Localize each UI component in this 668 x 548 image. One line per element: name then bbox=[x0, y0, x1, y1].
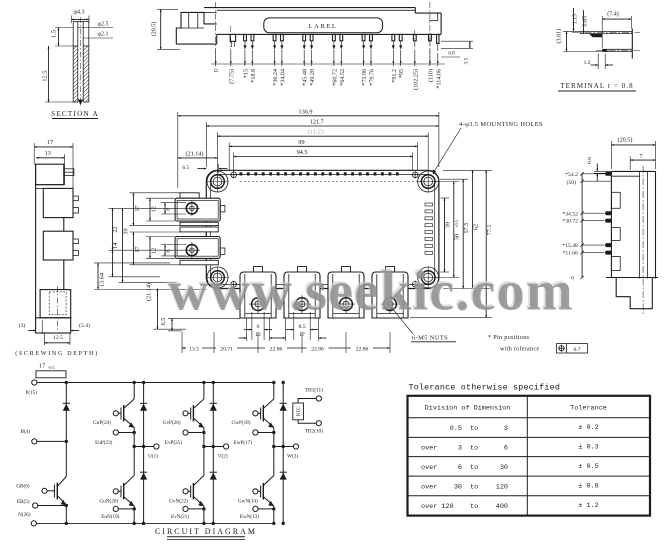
dim phi2.5 leader bbox=[78, 22, 113, 28]
svg-text:17: 17 bbox=[47, 139, 53, 146]
dim 7 right view bbox=[630, 153, 655, 170]
dim (21.14) horizontal bbox=[178, 150, 218, 158]
left terminal block A bbox=[175, 193, 225, 221]
svg-text:*49.28: *49.28 bbox=[310, 69, 316, 86]
svg-text:P(15): P(15) bbox=[25, 389, 37, 396]
terminal EwP(17) emitter-sense upper bbox=[234, 430, 276, 446]
svg-text:EuN(19): EuN(19) bbox=[101, 513, 119, 520]
svg-text:12: 12 bbox=[150, 248, 157, 254]
svg-text:0: 0 bbox=[214, 69, 220, 72]
left view body bbox=[36, 164, 79, 333]
terminal GvN(22) gate lower bbox=[169, 489, 188, 505]
svg-text:to: to bbox=[470, 503, 478, 511]
side pins bbox=[605, 172, 612, 176]
node w output / terminal W(3) bbox=[272, 444, 299, 460]
dim 39 (left) bbox=[119, 208, 177, 282]
svg-text:*30.24: *30.24 bbox=[273, 69, 279, 86]
right side pin labels bbox=[562, 172, 578, 282]
svg-text:20.71: 20.71 bbox=[220, 346, 233, 352]
svg-text:± 0.5: ± 0.5 bbox=[578, 463, 598, 471]
svg-text:*79.76: *79.76 bbox=[370, 69, 376, 86]
svg-text:TH2(10): TH2(10) bbox=[305, 427, 323, 434]
dim 6.5 vertical bbox=[160, 318, 240, 331]
svg-text:with tolerance: with tolerance bbox=[500, 346, 539, 353]
dim 12 (top block) bbox=[146, 198, 175, 221]
svg-text:14: 14 bbox=[112, 243, 119, 249]
hidden line under pin row bbox=[240, 180, 425, 182]
svg-text:over 120: over 120 bbox=[421, 503, 454, 511]
svg-text:94.5: 94.5 bbox=[297, 149, 308, 156]
svg-text:121.7: 121.7 bbox=[310, 119, 324, 126]
dim (7.4) bbox=[602, 11, 631, 49]
wire junctions leg v bbox=[202, 381, 205, 384]
dim 22 bbox=[109, 208, 185, 250]
dim (5.4) bbox=[71, 322, 90, 331]
dim (20.5) right view bbox=[611, 137, 655, 169]
dim 136.9 bbox=[178, 108, 439, 188]
junctions brake bbox=[65, 381, 68, 384]
pin positions tolerance note bbox=[488, 334, 588, 353]
diode D4 (u-phase lower freewheel) bbox=[140, 447, 147, 524]
centerlines bbox=[215, 2, 217, 66]
svg-text:30: 30 bbox=[454, 484, 462, 492]
svg-text:77.1: 77.1 bbox=[486, 225, 493, 236]
transistor Q3 (w-phase upper IGBT) bbox=[258, 383, 274, 447]
dim 111.23 (faint) bbox=[218, 129, 429, 172]
dim (20.5) bbox=[151, 9, 181, 49]
terminal GB(6) bbox=[16, 482, 47, 493]
svg-text:NTC: NTC bbox=[297, 406, 302, 417]
svg-text:136.9: 136.9 bbox=[299, 108, 313, 115]
terminal EvP(25) emitter-sense upper bbox=[165, 430, 206, 446]
svg-text:-0.5: -0.5 bbox=[48, 365, 54, 370]
svg-text:(5.4): (5.4) bbox=[79, 322, 90, 329]
dim 94.5 bbox=[234, 149, 413, 171]
svg-text:120: 120 bbox=[496, 484, 508, 492]
wire junctions leg u bbox=[133, 381, 136, 384]
svg-text:12.5: 12.5 bbox=[53, 335, 63, 341]
diode D5 (v-phase lower freewheel) bbox=[210, 447, 217, 524]
dim phi2.1 leader bbox=[83, 32, 113, 39]
svg-text:1.2: 1.2 bbox=[584, 60, 591, 66]
dim 17 with tolerance bbox=[36, 363, 66, 378]
svg-text:99: 99 bbox=[298, 139, 304, 146]
dim 8.5 bbox=[286, 312, 318, 340]
mounting hole top-left bbox=[207, 171, 229, 193]
svg-text:22.86: 22.86 bbox=[311, 346, 324, 352]
svg-text:± 1.2: ± 1.2 bbox=[578, 502, 598, 510]
diode D6 (w-phase lower freewheel) bbox=[280, 447, 287, 524]
dim 77.1 bbox=[410, 170, 493, 317]
SECTION A title bbox=[51, 110, 99, 119]
svg-text:*34.52: *34.52 bbox=[562, 211, 578, 217]
svg-text:*11.66: *11.66 bbox=[563, 251, 579, 257]
svg-text:EuP(23): EuP(23) bbox=[95, 439, 113, 446]
terminal EwN(13) emitter-sense lower bbox=[240, 506, 276, 520]
6-M5 NUTS note bbox=[391, 306, 457, 342]
node v output / terminal V(2) bbox=[202, 444, 229, 460]
svg-text:*60.72: *60.72 bbox=[332, 69, 338, 86]
mounting hole bottom-right bbox=[417, 267, 439, 289]
node u output / terminal U(1) bbox=[133, 444, 159, 460]
dim 17 (top block) bbox=[130, 193, 181, 226]
svg-text:V(2): V(2) bbox=[218, 453, 228, 460]
svg-text:(20.5): (20.5) bbox=[151, 22, 158, 37]
LABEL box bbox=[264, 18, 383, 33]
dim 50 +-0.5 bbox=[436, 182, 461, 278]
svg-text:50: 50 bbox=[454, 234, 461, 240]
terminal EvN(21) emitter-sense lower bbox=[171, 506, 206, 520]
wire P to brake diode bbox=[65, 383, 67, 477]
module body outline bbox=[206, 170, 439, 288]
mounting foot bbox=[616, 278, 652, 309]
svg-text:*15.48: *15.48 bbox=[562, 243, 578, 249]
transistor Q5 (v-phase lower IGBT) bbox=[188, 447, 204, 524]
svg-text:6: 6 bbox=[257, 324, 260, 330]
corner bosses bbox=[207, 171, 228, 192]
svg-text:6: 6 bbox=[458, 464, 462, 472]
dim 12.5 bbox=[42, 46, 77, 102]
svg-text:(SCREWING DEPTH): (SCREWING DEPTH) bbox=[15, 350, 99, 357]
svg-text:22.86: 22.86 bbox=[270, 346, 283, 352]
svg-text:111.23: 111.23 bbox=[307, 129, 324, 136]
svg-text:(3.81): (3.81) bbox=[556, 29, 563, 44]
svg-text:*75.96: *75.96 bbox=[362, 69, 368, 86]
bottom dimension chain 13.5/20.71/22.86 bbox=[182, 332, 390, 353]
dim 1.15 bbox=[573, 8, 579, 31]
dim 6 (bottom block) bbox=[161, 245, 186, 256]
svg-text:62: 62 bbox=[472, 224, 479, 230]
dim (21.14) vertical bbox=[145, 283, 186, 329]
node B junction bbox=[65, 440, 68, 443]
dim 1.5 bbox=[51, 28, 74, 47]
svg-text:± 0.8: ± 0.8 bbox=[578, 482, 598, 490]
svg-text:39: 39 bbox=[444, 222, 451, 228]
diode D7 (brake freewheel) bbox=[63, 403, 70, 410]
svg-text:(7.4): (7.4) bbox=[607, 11, 619, 18]
svg-text:(3): (3) bbox=[19, 322, 26, 329]
svg-text:GvN(22): GvN(22) bbox=[169, 497, 188, 504]
svg-text:13: 13 bbox=[45, 150, 51, 157]
diode D1 (u-phase upper freewheel) bbox=[140, 383, 147, 447]
left terminal block B bbox=[175, 237, 225, 259]
watermark www.seekic.com bbox=[166, 259, 573, 323]
svg-text:*15: *15 bbox=[243, 69, 249, 78]
terminal GuP(24) gate upper bbox=[93, 411, 118, 427]
diode D2 (v-phase upper freewheel) bbox=[210, 383, 217, 447]
svg-text:3: 3 bbox=[504, 425, 508, 433]
svg-text:17: 17 bbox=[134, 246, 141, 252]
svg-text:EvN(21): EvN(21) bbox=[171, 513, 189, 520]
svg-text:6: 6 bbox=[504, 445, 508, 453]
svg-text:4-φ3.5 MOUNTING HOLES: 4-φ3.5 MOUNTING HOLES bbox=[459, 121, 543, 128]
svg-text:+0.5: +0.5 bbox=[454, 220, 459, 227]
svg-text:± 0.3: ± 0.3 bbox=[578, 443, 598, 451]
svg-text:EwP(17): EwP(17) bbox=[234, 439, 253, 446]
svg-text:Tolerance otherwise specified: Tolerance otherwise specified bbox=[409, 383, 561, 393]
dim 12 (bottom block) bbox=[146, 237, 175, 259]
N bus wire bbox=[36, 522, 273, 524]
svg-text:* Pin positions: * Pin positions bbox=[488, 334, 530, 341]
svg-text:*18.8: *18.8 bbox=[251, 69, 257, 83]
dim 12 bbox=[239, 318, 278, 341]
svg-text:6: 6 bbox=[165, 249, 172, 252]
running dimension baseline with ordinate labels bbox=[211, 50, 445, 90]
molded ribs bbox=[611, 192, 620, 208]
svg-text:www.seekic.com: www.seekic.com bbox=[168, 261, 574, 323]
diode D3 (w-phase upper freewheel) bbox=[280, 383, 287, 447]
dim 14 bbox=[109, 243, 161, 277]
svg-text:Division of Dimension: Division of Dimension bbox=[425, 405, 511, 413]
transistor Q1 (u-phase upper IGBT) bbox=[118, 383, 134, 447]
terminal GuN(20) gate lower bbox=[99, 489, 118, 505]
dim 13 top bbox=[36, 150, 65, 185]
small corner holes bbox=[230, 171, 237, 178]
svg-text:8.5: 8.5 bbox=[298, 324, 305, 330]
svg-text:to: to bbox=[470, 425, 478, 433]
dim 99 bbox=[229, 139, 417, 171]
svg-text:to: to bbox=[470, 445, 478, 453]
dim 1.2 bbox=[584, 54, 613, 70]
svg-text:to: to bbox=[470, 464, 478, 472]
svg-text:0.8: 0.8 bbox=[587, 157, 593, 164]
dim 0.8 (pin offset) bbox=[441, 52, 460, 58]
svg-text:CIRCUIT DIAGRAM: CIRCUIT DIAGRAM bbox=[155, 527, 257, 536]
terminal GwP(18) gate upper bbox=[231, 411, 258, 427]
svg-text:*54.2: *54.2 bbox=[565, 172, 578, 178]
svg-text:13.5: 13.5 bbox=[189, 346, 199, 352]
svg-text:7: 7 bbox=[639, 153, 642, 160]
signal pin row bbox=[240, 172, 399, 175]
bottom screw terminal blocks with M5 nuts bbox=[240, 267, 276, 319]
svg-text:12: 12 bbox=[150, 206, 157, 212]
terminal EuN(19) emitter-sense lower bbox=[101, 506, 136, 520]
svg-text:*91.2: *91.2 bbox=[392, 69, 398, 83]
svg-text:*30.72: *30.72 bbox=[562, 219, 578, 225]
svg-text:GuN(20): GuN(20) bbox=[99, 497, 118, 504]
svg-text:GvP(28): GvP(28) bbox=[163, 419, 181, 426]
dim 12.5 bbox=[45, 333, 71, 345]
svg-text:57.5: 57.5 bbox=[463, 223, 470, 234]
svg-text:over: over bbox=[421, 484, 437, 492]
svg-text:EwN(13): EwN(13) bbox=[240, 513, 260, 520]
svg-text:SECTION A: SECTION A bbox=[51, 110, 99, 118]
P bus wire bbox=[37, 382, 274, 384]
left middle tabs bbox=[180, 222, 218, 225]
svg-text:0.7: 0.7 bbox=[573, 347, 580, 353]
svg-text:EvP(25): EvP(25) bbox=[165, 439, 183, 446]
dim 62 bbox=[443, 170, 492, 288]
mounting hole top-right bbox=[417, 171, 439, 193]
svg-text:TERMINAL t = 0.8: TERMINAL t = 0.8 bbox=[560, 82, 633, 90]
svg-text:0.5: 0.5 bbox=[450, 425, 462, 433]
svg-text:3.5: 3.5 bbox=[464, 57, 470, 64]
dim 6 (top block) bbox=[161, 203, 186, 214]
terminal N(26) bbox=[18, 511, 36, 526]
svg-text:(20.5): (20.5) bbox=[618, 137, 633, 144]
dim 17 bbox=[278, 318, 327, 341]
terminal B(4) bbox=[20, 428, 66, 444]
dim (3) bbox=[19, 320, 43, 334]
dim 0.65 bbox=[583, 10, 589, 33]
dim (3.81) bbox=[556, 29, 603, 52]
svg-text:30: 30 bbox=[500, 464, 508, 472]
dim 121.7 bbox=[206, 119, 439, 168]
4-phi3.5 mounting holes note bbox=[433, 121, 543, 175]
dim 3.5 (pin stickout) bbox=[441, 41, 473, 64]
svg-text:φ4.3: φ4.3 bbox=[74, 10, 85, 16]
terminal P(15) bbox=[25, 380, 37, 396]
svg-text:12.5: 12.5 bbox=[42, 70, 49, 81]
transistor Q7 (brake IGBT) bbox=[47, 477, 66, 524]
terminal GwN(14) gate lower bbox=[238, 489, 258, 505]
transistor Q4 (u-phase lower IGBT) bbox=[118, 447, 134, 524]
svg-text:22: 22 bbox=[112, 226, 119, 232]
svg-text:φ2.1: φ2.1 bbox=[98, 32, 109, 38]
svg-text:6.5: 6.5 bbox=[182, 165, 189, 171]
dim 17 top bbox=[34, 139, 73, 190]
svg-text:6-M5 NUTS: 6-M5 NUTS bbox=[412, 335, 448, 342]
upper terminal pin profile bbox=[572, 31, 640, 37]
svg-text:*34.04: *34.04 bbox=[280, 69, 286, 86]
pin cross-section hatched walls bbox=[73, 17, 89, 106]
svg-text:B(4): B(4) bbox=[20, 428, 30, 435]
svg-text:22.86: 22.86 bbox=[356, 346, 369, 352]
wire junctions leg w bbox=[272, 381, 275, 384]
svg-text:17: 17 bbox=[39, 363, 45, 370]
svg-text:over: over bbox=[421, 464, 437, 472]
svg-text:(102.25): (102.25) bbox=[412, 69, 419, 90]
terminal EB(5) bbox=[17, 498, 66, 508]
svg-text:N(26): N(26) bbox=[18, 511, 31, 518]
svg-text:GuP(24): GuP(24) bbox=[93, 419, 111, 426]
transistor Q2 (v-phase upper IGBT) bbox=[188, 383, 204, 447]
svg-text:LABEL: LABEL bbox=[309, 23, 338, 30]
dim 6.5 horizontal bbox=[182, 164, 227, 173]
mounting hole bottom-left bbox=[207, 267, 229, 289]
body outline bbox=[606, 166, 658, 315]
CIRCUIT DIAGRAM title bbox=[155, 527, 257, 540]
side-view pins bbox=[230, 34, 439, 51]
svg-text:U(1): U(1) bbox=[148, 453, 158, 460]
svg-text:(110): (110) bbox=[427, 69, 434, 82]
module side-view body bbox=[176, 8, 441, 45]
dim 0.8 right view bbox=[587, 157, 612, 181]
terminal TH2(10) bbox=[298, 420, 323, 435]
dim 13.64 bbox=[94, 263, 206, 290]
dim 39 (right) bbox=[441, 198, 452, 272]
lower terminal pin profile bbox=[596, 49, 640, 51]
svg-text:(21.14): (21.14) bbox=[185, 150, 203, 157]
terminal housing wall bbox=[631, 29, 633, 59]
transistor Q6 (w-phase lower IGBT) bbox=[258, 447, 274, 524]
terminal GvP(28) gate upper bbox=[163, 411, 188, 427]
thermistor NTC bbox=[293, 403, 304, 420]
svg-text:(7.75): (7.75) bbox=[228, 69, 235, 84]
dim 57.5 bbox=[440, 179, 470, 288]
terminal EuP(23) emitter-sense upper bbox=[95, 430, 136, 446]
svg-text:over: over bbox=[421, 445, 437, 453]
svg-text:13.64: 13.64 bbox=[99, 273, 106, 287]
svg-text:(50): (50) bbox=[567, 179, 577, 186]
svg-text:3: 3 bbox=[458, 445, 462, 453]
svg-text:*45.48: *45.48 bbox=[303, 69, 309, 86]
svg-text:39: 39 bbox=[122, 228, 129, 234]
svg-text:± 0.2: ± 0.2 bbox=[578, 424, 598, 432]
pin position ordinate dimension line bbox=[580, 172, 611, 279]
terminal TH1(11) bbox=[298, 387, 323, 403]
svg-text:GB(6): GB(6) bbox=[16, 482, 30, 489]
svg-text:0.8: 0.8 bbox=[448, 52, 455, 57]
svg-text:*114.06: *114.06 bbox=[436, 69, 442, 89]
svg-text:GwP(18): GwP(18) bbox=[231, 419, 250, 426]
dim 6 bbox=[244, 312, 272, 340]
TERMINAL title bbox=[558, 82, 636, 91]
svg-text:400: 400 bbox=[496, 503, 508, 511]
svg-text:(21.14): (21.14) bbox=[145, 283, 152, 301]
svg-text:EB(5): EB(5) bbox=[17, 498, 30, 505]
svg-text:φ2.5: φ2.5 bbox=[98, 22, 109, 28]
svg-text:W(3): W(3) bbox=[287, 453, 298, 460]
right edge pin comb bbox=[425, 203, 433, 254]
svg-text:*64.52: *64.52 bbox=[340, 69, 346, 86]
svg-text:to: to bbox=[470, 484, 478, 492]
svg-text:1.5: 1.5 bbox=[51, 30, 58, 38]
svg-text:GwN(14): GwN(14) bbox=[238, 497, 258, 504]
svg-text:Tolerance: Tolerance bbox=[570, 405, 607, 413]
dim 17 (bottom block) bbox=[130, 232, 181, 265]
svg-text:TH1(11): TH1(11) bbox=[305, 387, 323, 394]
dim phi4.3 bbox=[72, 10, 90, 24]
svg-text:*95: *95 bbox=[399, 69, 405, 78]
